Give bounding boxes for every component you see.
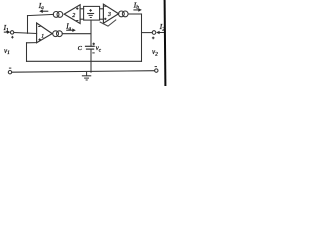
svg-text:3: 3	[107, 12, 111, 18]
svg-text:2: 2	[72, 13, 75, 19]
svg-text:1: 1	[41, 33, 44, 39]
svg-text:C: C	[78, 45, 83, 52]
